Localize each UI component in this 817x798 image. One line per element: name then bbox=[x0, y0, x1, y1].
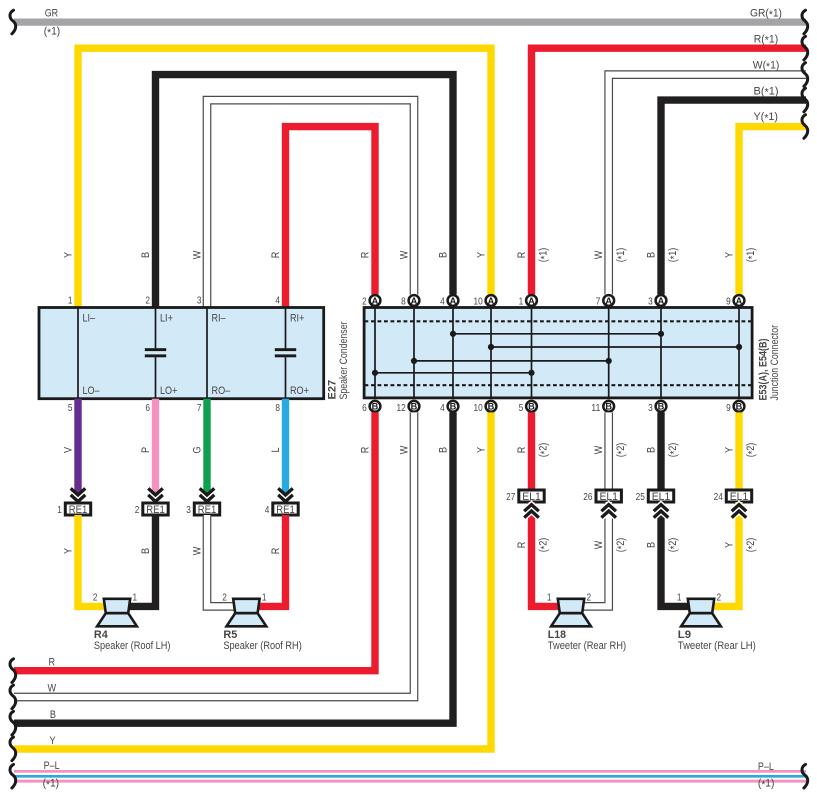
connector arrows above RE1-1 bbox=[71, 488, 86, 501]
label (*2) above EL1-27 bbox=[538, 443, 551, 458]
wire Y(*1) yellow to junction 9A bbox=[739, 127, 806, 295]
junction box dashed line lower bbox=[365, 384, 753, 386]
wire W white E27 pin3 to junction 8A bbox=[207, 100, 414, 307]
label E53(A), E54(B) bbox=[758, 338, 770, 400]
junction connector E53 E54 box bbox=[364, 308, 752, 398]
junction pin 5B circle bbox=[526, 401, 537, 412]
svg-text:B: B bbox=[437, 252, 449, 258]
svg-text:G: G bbox=[191, 446, 203, 453]
break symbol right of P-L rail bbox=[802, 764, 808, 788]
svg-text:(*1): (*1) bbox=[538, 248, 551, 263]
svg-text:R(*1): R(*1) bbox=[754, 33, 779, 46]
svg-text:W: W bbox=[48, 683, 57, 695]
label B bottom left bbox=[50, 709, 56, 721]
label R5 bbox=[223, 629, 237, 641]
svg-text:(*2): (*2) bbox=[538, 443, 551, 458]
svg-text:1: 1 bbox=[677, 592, 682, 603]
svg-text:5: 5 bbox=[68, 403, 73, 414]
label W on wire x=608.7 bbox=[593, 250, 605, 259]
junction pin number 3 bottom bbox=[648, 403, 653, 414]
junction pin 11B circle bbox=[603, 401, 614, 412]
svg-text:E53(A), E54(B): E53(A), E54(B) bbox=[758, 338, 770, 400]
wire R red junction 6B to left edge bbox=[14, 412, 375, 670]
break symbol left of GR wire bbox=[10, 10, 16, 34]
svg-text:2: 2 bbox=[145, 295, 150, 306]
svg-text:RE1: RE1 bbox=[69, 504, 88, 516]
junction pin 3A circle bbox=[656, 295, 667, 306]
svg-text:P: P bbox=[140, 447, 152, 453]
svg-text:(*1): (*1) bbox=[667, 248, 680, 263]
E27 terminal label RO+ bbox=[290, 385, 309, 397]
svg-text:B: B bbox=[658, 402, 665, 412]
label B on wire x=453.0 bbox=[437, 252, 449, 258]
svg-text:R: R bbox=[49, 656, 56, 668]
E27 pin 3 top bbox=[197, 295, 202, 306]
label (*2) above EL1-24 bbox=[745, 443, 758, 458]
svg-text:B: B bbox=[736, 402, 743, 412]
svg-text:6: 6 bbox=[145, 403, 150, 414]
svg-text:B: B bbox=[645, 252, 657, 258]
svg-text:Tweeter (Rear LH): Tweeter (Rear LH) bbox=[678, 640, 756, 652]
junction pin 1A circle bbox=[526, 295, 537, 306]
svg-text:8: 8 bbox=[275, 403, 280, 414]
svg-text:W: W bbox=[593, 445, 605, 454]
break symbol right of B(*1) bbox=[802, 88, 808, 112]
connector arrows below EL1-27 bbox=[524, 505, 539, 518]
connector arrows above RE1-4 bbox=[278, 488, 293, 501]
label B on wire x=155.5 bbox=[140, 252, 152, 258]
svg-text:RE1: RE1 bbox=[276, 504, 295, 516]
svg-text:Y: Y bbox=[723, 542, 735, 548]
junction pin number 4 top bbox=[440, 296, 445, 307]
svg-text:4: 4 bbox=[275, 295, 280, 306]
wire W(*1) white to junction 7A bbox=[609, 75, 806, 295]
svg-text:L: L bbox=[270, 448, 282, 453]
label R bottom left bbox=[49, 656, 56, 668]
svg-text:6: 6 bbox=[362, 403, 367, 414]
junction internal column line 5 bbox=[531, 308, 533, 398]
svg-text:Y: Y bbox=[723, 252, 735, 258]
label W bottom left bbox=[48, 683, 57, 695]
junction pin number 9 top bbox=[726, 296, 731, 307]
svg-text:1: 1 bbox=[68, 295, 73, 306]
label R4 bbox=[94, 629, 109, 641]
wire G green E27 pin7 to RE1-3 bbox=[203, 399, 210, 494]
svg-text:4: 4 bbox=[265, 505, 270, 516]
junction bus bar 10A-9A bbox=[488, 344, 742, 350]
relay EL1 no.24 box bbox=[726, 490, 751, 503]
relay RE1 no.2 box bbox=[143, 503, 168, 516]
svg-text:RE1: RE1 bbox=[146, 504, 165, 516]
svg-text:Speaker (Roof LH): Speaker (Roof LH) bbox=[94, 640, 171, 652]
svg-text:(*2): (*2) bbox=[615, 443, 628, 458]
label Tweeter (Rear RH) bbox=[548, 640, 627, 652]
svg-text:(*2): (*2) bbox=[667, 538, 680, 553]
svg-text:11: 11 bbox=[591, 403, 600, 414]
svg-text:Junction Connector: Junction Connector bbox=[769, 325, 781, 401]
junction bus bar 4A-3A bbox=[450, 331, 664, 337]
E27 terminal label RI– bbox=[212, 312, 226, 324]
label W(*1) right bbox=[753, 59, 780, 72]
E27 pin 5 bottom bbox=[68, 403, 73, 414]
svg-text:B: B bbox=[488, 402, 495, 412]
svg-text:GR(*1): GR(*1) bbox=[750, 8, 782, 21]
label (*1) under GR left bbox=[44, 26, 61, 39]
capacitor between LI+ and LO+ bbox=[145, 308, 166, 399]
svg-text:(*2): (*2) bbox=[667, 443, 680, 458]
svg-text:RO+: RO+ bbox=[290, 385, 309, 397]
label (*2) above EL1-25 bbox=[667, 443, 680, 458]
label 26 left of EL1-26 bbox=[583, 492, 592, 503]
svg-text:(*1): (*1) bbox=[745, 248, 758, 263]
label R above EL1-27 bbox=[516, 447, 528, 454]
junction internal column line 2 bbox=[413, 308, 415, 398]
label 25 left of EL1-25 bbox=[636, 492, 645, 503]
junction pin 9B circle bbox=[734, 401, 745, 412]
svg-text:26: 26 bbox=[583, 492, 592, 503]
svg-text:10: 10 bbox=[474, 296, 483, 307]
svg-text:2: 2 bbox=[717, 592, 722, 603]
svg-text:5: 5 bbox=[519, 403, 524, 414]
svg-text:27: 27 bbox=[506, 492, 515, 503]
svg-text:R: R bbox=[270, 548, 282, 555]
svg-text:LO+: LO+ bbox=[160, 385, 177, 397]
svg-text:1: 1 bbox=[547, 592, 552, 603]
svg-text:(*2): (*2) bbox=[538, 538, 551, 553]
label Y below RE1-1 bbox=[62, 548, 74, 554]
svg-text:B: B bbox=[450, 402, 457, 412]
relay RE1 no.3 box bbox=[194, 503, 219, 516]
label Y on wire x=491.0 bbox=[475, 252, 487, 258]
svg-text:Y: Y bbox=[62, 548, 74, 554]
junction pin number 8 top bbox=[401, 296, 406, 307]
svg-text:Y: Y bbox=[475, 447, 487, 453]
wire L blue E27 pin8 to RE1-4 bbox=[282, 399, 289, 494]
relay RE1 no.4 box bbox=[273, 503, 298, 516]
svg-text:A: A bbox=[528, 296, 535, 306]
svg-text:2: 2 bbox=[93, 592, 98, 603]
svg-text:R: R bbox=[516, 542, 528, 549]
junction pin 3B circle bbox=[656, 401, 667, 412]
capacitor between RI+ and RO+ bbox=[275, 308, 296, 399]
junction pin number 10 bottom bbox=[474, 403, 483, 414]
wire B(*1) black to junction 3A bbox=[661, 100, 806, 294]
junction pin 8A circle bbox=[409, 295, 420, 306]
break symbol left of B bottom rail bbox=[10, 711, 16, 735]
svg-text:(*2): (*2) bbox=[745, 538, 758, 553]
svg-text:R: R bbox=[270, 252, 282, 259]
E27 pin 2 top bbox=[145, 295, 150, 306]
svg-text:A: A bbox=[450, 296, 457, 306]
svg-text:E27: E27 bbox=[326, 380, 338, 400]
svg-text:B: B bbox=[411, 402, 418, 412]
label Y below EL1-24 bbox=[723, 542, 735, 548]
label (*2) below EL1-24 bbox=[745, 538, 758, 553]
junction internal column line 8 bbox=[738, 308, 740, 398]
relay RE1 no.1 box bbox=[65, 503, 90, 516]
label B above EL1-25 bbox=[645, 447, 657, 453]
label 24 left of EL1-24 bbox=[714, 492, 723, 503]
svg-text:9: 9 bbox=[726, 296, 731, 307]
svg-text:Tweeter (Rear RH): Tweeter (Rear RH) bbox=[548, 640, 627, 652]
svg-text:4: 4 bbox=[440, 403, 445, 414]
svg-text:LI–: LI– bbox=[83, 312, 96, 324]
label 2 at R5 bbox=[222, 592, 227, 603]
svg-text:Y(*1): Y(*1) bbox=[754, 111, 779, 124]
label (*1) on wire x=531.5 bbox=[538, 248, 551, 263]
wire GR(*1) gray rail bbox=[14, 19, 806, 26]
label Y on wire x=78.0 bbox=[62, 252, 74, 258]
label V bbox=[62, 446, 74, 453]
svg-text:W: W bbox=[398, 250, 410, 259]
wire B black junction 4B to left edge bbox=[14, 412, 453, 723]
junction pin 4A circle bbox=[448, 295, 459, 306]
svg-text:P–L: P–L bbox=[758, 761, 774, 773]
label 1 left of RE1-1 bbox=[57, 505, 62, 516]
E27 terminal label LI– bbox=[83, 312, 96, 324]
svg-text:A: A bbox=[488, 296, 495, 306]
svg-text:9: 9 bbox=[726, 403, 731, 414]
label (*1) under P-L right bbox=[758, 778, 775, 791]
E27 pin 1 top bbox=[68, 295, 73, 306]
relay EL1 no.27 box bbox=[519, 490, 544, 503]
svg-text:3: 3 bbox=[186, 505, 191, 516]
junction pin number 9 bottom bbox=[726, 403, 731, 414]
svg-text:W: W bbox=[191, 250, 203, 259]
junction pin 2A circle bbox=[370, 295, 381, 306]
junction pin 12B circle bbox=[409, 401, 420, 412]
wire B black E27 pin2 to junction 4A bbox=[156, 75, 454, 307]
wire B(*2) black junction 3B to EL1-25 bbox=[657, 412, 664, 490]
label Speaker (Roof RH) bbox=[223, 640, 302, 652]
wire R(*2) red junction 5B to EL1-27 bbox=[528, 412, 535, 490]
label (*1) on wire x=739.0 bbox=[745, 248, 758, 263]
label L bbox=[270, 448, 282, 453]
svg-text:R: R bbox=[516, 252, 528, 259]
speaker condenser E27 box bbox=[39, 308, 324, 399]
svg-text:A: A bbox=[658, 296, 665, 306]
svg-text:B: B bbox=[140, 548, 152, 554]
wire R(*1) red to junction 1A bbox=[532, 48, 807, 294]
junction pin number 5 bottom bbox=[519, 403, 524, 414]
svg-text:3: 3 bbox=[197, 295, 202, 306]
E27 terminal label RO– bbox=[212, 385, 231, 397]
svg-text:2: 2 bbox=[222, 592, 227, 603]
svg-text:B: B bbox=[140, 252, 152, 258]
tweeter L18 symbol bbox=[551, 599, 591, 627]
wire W white RE1-3 to speaker R5 pin2 bbox=[207, 515, 235, 606]
break symbol right of W(*1) bbox=[802, 63, 808, 87]
svg-text:A: A bbox=[372, 296, 379, 306]
label 1 at L9 bbox=[677, 592, 682, 603]
label P-L right bbox=[758, 761, 774, 773]
label L9 bbox=[678, 629, 691, 641]
svg-text:Y: Y bbox=[50, 735, 56, 747]
label G bbox=[191, 446, 203, 453]
label R on wire x=375.0 bbox=[359, 252, 371, 259]
svg-text:3: 3 bbox=[648, 403, 653, 414]
svg-text:Speaker Condenser: Speaker Condenser bbox=[338, 321, 350, 399]
svg-text:P–L: P–L bbox=[44, 760, 60, 772]
svg-text:24: 24 bbox=[714, 492, 723, 503]
label Y above EL1-24 bbox=[723, 447, 735, 453]
connector arrows below EL1-26 bbox=[601, 505, 616, 518]
label GR left bbox=[45, 7, 59, 19]
svg-text:25: 25 bbox=[636, 492, 645, 503]
junction box dashed line upper bbox=[365, 320, 753, 322]
junction internal column line 7 bbox=[660, 308, 662, 398]
svg-text:A: A bbox=[736, 296, 743, 306]
svg-text:B: B bbox=[528, 402, 535, 412]
connector arrows above RE1-2 bbox=[148, 488, 163, 501]
E27 terminal label RI+ bbox=[290, 312, 304, 324]
label (*2) below EL1-25 bbox=[667, 538, 680, 553]
svg-text:12: 12 bbox=[397, 403, 406, 414]
svg-text:A: A bbox=[411, 296, 418, 306]
svg-text:7: 7 bbox=[197, 403, 202, 414]
label R mid bbox=[359, 447, 371, 454]
E27 pin 7 bottom bbox=[197, 403, 202, 414]
svg-text:W: W bbox=[593, 250, 605, 259]
label B mid bbox=[437, 447, 449, 453]
junction pin number 11 bottom bbox=[591, 403, 600, 414]
svg-text:(*2): (*2) bbox=[745, 443, 758, 458]
tweeter L9 symbol bbox=[681, 599, 721, 627]
svg-text:W(*1): W(*1) bbox=[753, 59, 780, 72]
svg-text:RI+: RI+ bbox=[290, 312, 304, 324]
svg-text:10: 10 bbox=[474, 403, 483, 414]
wire P pink E27 pin6 to RE1-2 bbox=[152, 399, 159, 494]
break symbol right of Y(*1) bbox=[802, 115, 808, 139]
label (*1) under P-L left bbox=[43, 778, 60, 791]
junction pin number 12 bottom bbox=[397, 403, 406, 414]
wire V violet E27 pin5 to RE1-1 bbox=[74, 399, 81, 494]
svg-text:B: B bbox=[605, 402, 612, 412]
junction internal column line 4 bbox=[490, 308, 492, 398]
svg-text:2: 2 bbox=[135, 505, 140, 516]
wire R red RE1-4 to speaker R5 pin1 bbox=[257, 515, 285, 606]
junction pin number 10 top bbox=[474, 296, 483, 307]
label Tweeter (Rear LH) bbox=[678, 640, 756, 652]
svg-text:(*1): (*1) bbox=[758, 778, 775, 791]
label (*2) below EL1-26 bbox=[615, 538, 628, 553]
svg-text:8: 8 bbox=[401, 296, 406, 307]
svg-text:Y: Y bbox=[62, 252, 74, 258]
wire Y yellow junction 10B to left edge bbox=[14, 412, 491, 749]
wire R(*2) red EL1-27 to tweeter L18 pin1 bbox=[532, 502, 560, 606]
junction bus bar 2A-5B bbox=[372, 370, 535, 376]
label B(*1) right bbox=[754, 85, 779, 98]
wire W(*2) white EL1-26 to tweeter L18 pin2 bbox=[582, 502, 609, 606]
junction pin number 2 top bbox=[362, 296, 367, 307]
wire Y(*2) yellow junction 9B to EL1-24 bbox=[735, 412, 742, 490]
svg-text:GR: GR bbox=[45, 7, 59, 19]
junction pin 6B circle bbox=[370, 401, 381, 412]
svg-text:7: 7 bbox=[596, 296, 601, 307]
speaker R5 symbol bbox=[227, 599, 267, 627]
break symbol left of Y bottom rail bbox=[10, 737, 16, 761]
svg-text:3: 3 bbox=[648, 296, 653, 307]
label P-L left bbox=[44, 760, 60, 772]
svg-text:B: B bbox=[645, 542, 657, 548]
E27 pin 4 top bbox=[275, 295, 280, 306]
svg-text:B: B bbox=[645, 447, 657, 453]
wire Y yellow RE1-1 to speaker R4 pin2 bbox=[78, 515, 105, 606]
junction internal column line 3 bbox=[452, 308, 454, 398]
label 1 at L18 bbox=[547, 592, 552, 603]
svg-text:1: 1 bbox=[57, 505, 62, 516]
svg-text:Y: Y bbox=[475, 252, 487, 258]
label Speaker Condenser bbox=[338, 321, 350, 399]
label E27 bbox=[326, 380, 338, 400]
break symbol left of R bottom rail bbox=[10, 659, 16, 683]
svg-text:RO–: RO– bbox=[212, 385, 231, 397]
svg-text:W: W bbox=[593, 540, 605, 549]
label R on wire x=285.5 bbox=[270, 252, 282, 259]
label 2 at R4 bbox=[93, 592, 98, 603]
svg-text:(*1): (*1) bbox=[43, 778, 60, 791]
break symbol right of GR wire bbox=[802, 10, 808, 34]
label R below RE1-4 bbox=[270, 548, 282, 555]
label Junction Connector bbox=[769, 325, 781, 401]
label (*2) above EL1-26 bbox=[615, 443, 628, 458]
break symbol right of R(*1) bbox=[802, 36, 808, 60]
svg-text:1: 1 bbox=[519, 296, 524, 307]
label R on wire x=531.5 bbox=[516, 252, 528, 259]
wire Y(*2) yellow EL1-24 to tweeter L9 pin2 bbox=[712, 502, 739, 606]
svg-text:B: B bbox=[437, 447, 449, 453]
E27 internal line pin1-5 bbox=[77, 308, 79, 399]
svg-text:R: R bbox=[359, 252, 371, 259]
label Speaker (Roof LH) bbox=[94, 640, 171, 652]
svg-text:R: R bbox=[359, 447, 371, 454]
wire R red E27 pin4 to junction 2A bbox=[286, 127, 376, 307]
label 27 left of EL1-27 bbox=[506, 492, 515, 503]
label (*1) on wire x=608.7 bbox=[615, 248, 628, 263]
label R below EL1-27 bbox=[516, 542, 528, 549]
label 2 left of RE1-2 bbox=[135, 505, 140, 516]
svg-text:Y: Y bbox=[723, 447, 735, 453]
junction internal column line 1 bbox=[374, 308, 376, 398]
svg-text:4: 4 bbox=[440, 296, 445, 307]
label 4 left of RE1-4 bbox=[265, 505, 270, 516]
svg-text:B: B bbox=[372, 402, 379, 412]
svg-text:2: 2 bbox=[587, 592, 592, 603]
label 3 left of RE1-3 bbox=[186, 505, 191, 516]
label Y on wire x=739.0 bbox=[723, 252, 735, 258]
svg-text:1: 1 bbox=[262, 592, 267, 603]
label (*1) on wire x=661.0 bbox=[667, 248, 680, 263]
svg-text:Speaker (Roof RH): Speaker (Roof RH) bbox=[223, 640, 302, 652]
svg-text:LI+: LI+ bbox=[160, 312, 173, 324]
svg-text:LO–: LO– bbox=[83, 385, 100, 397]
E27 terminal label LO+ bbox=[160, 385, 177, 397]
junction pin number 1 top bbox=[519, 296, 524, 307]
label Y mid bbox=[475, 447, 487, 453]
junction pin number 6 bottom bbox=[362, 403, 367, 414]
label 1 at R5 bbox=[262, 592, 267, 603]
svg-text:W: W bbox=[191, 546, 203, 555]
junction pin number 4 bottom bbox=[440, 403, 445, 414]
svg-text:RI–: RI– bbox=[212, 312, 226, 324]
E27 pin 6 bottom bbox=[145, 403, 150, 414]
label 2 at L18 bbox=[587, 592, 592, 603]
wire Y yellow E27 pin1 to junction 10A bbox=[78, 48, 491, 307]
label W below EL1-26 bbox=[593, 540, 605, 549]
wire W white junction 12B to left edge bbox=[14, 412, 414, 697]
label R(*1) right bbox=[754, 33, 779, 46]
svg-text:W: W bbox=[398, 445, 410, 454]
